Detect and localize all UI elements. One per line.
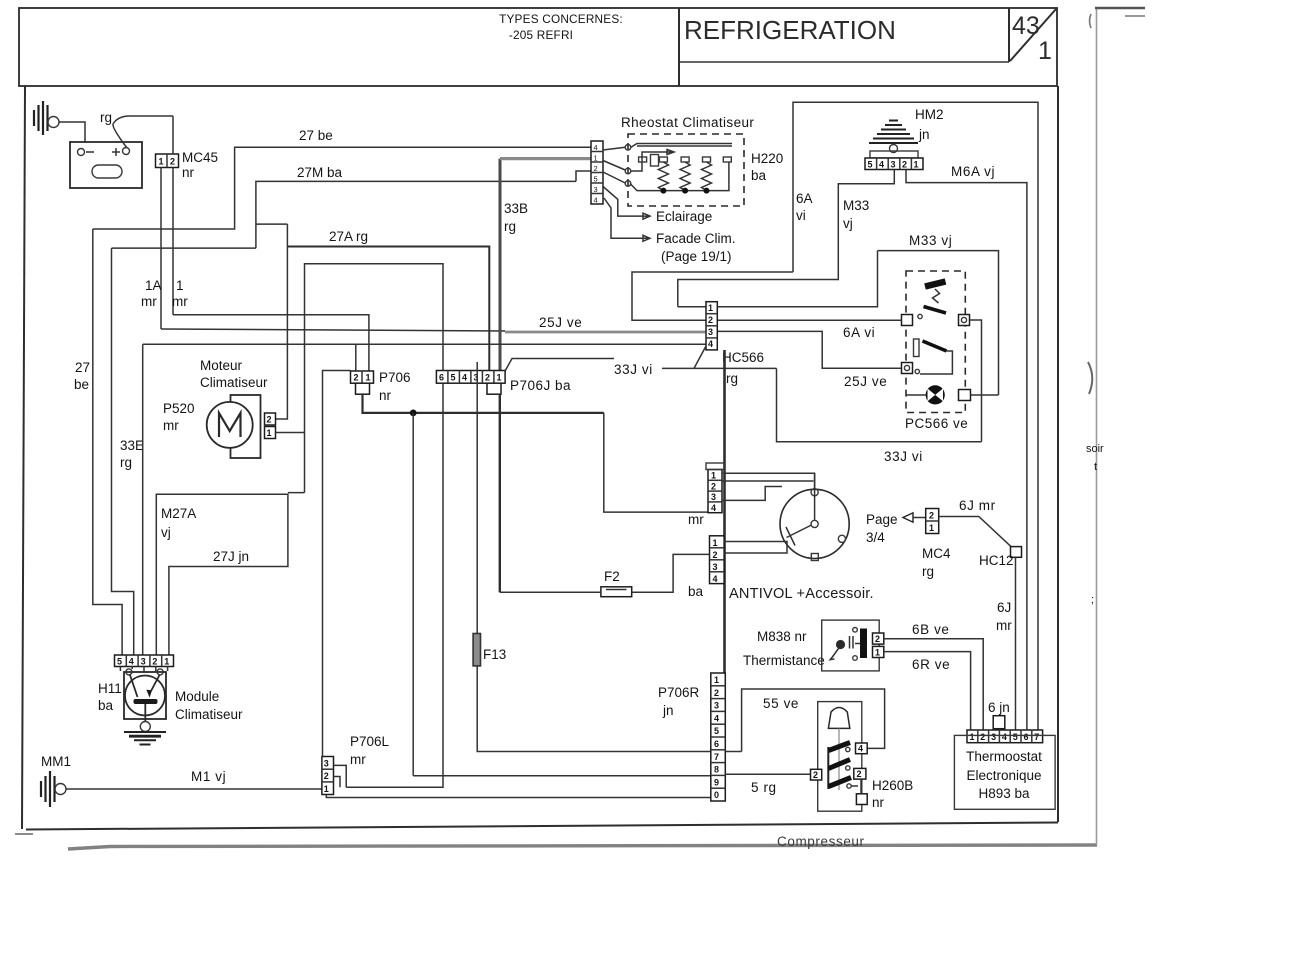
svg-text:6 jn: 6 jn <box>988 700 1010 715</box>
wire 5 rg <box>725 773 810 775</box>
thermistor arrow <box>830 649 838 660</box>
svg-text:rg: rg <box>922 564 934 579</box>
svg-text:27J jn: 27J jn <box>213 549 249 564</box>
wire HM2 left leg to HC566 pin2 <box>632 272 793 320</box>
H260B circle3 wire <box>851 785 858 787</box>
svg-text:2: 2 <box>902 160 907 170</box>
svg-text:HC566: HC566 <box>722 350 764 365</box>
junction dot bus <box>410 410 417 417</box>
svg-text:Thermoostat: Thermoostat <box>966 749 1042 764</box>
H260B dome <box>828 708 849 729</box>
svg-text:M33: M33 <box>843 198 869 213</box>
svg-text:27M ba: 27M ba <box>297 165 343 180</box>
svg-text:vj: vj <box>843 216 853 231</box>
wire strip to node3 <box>603 172 625 183</box>
wire T2 right <box>970 320 982 442</box>
wire MC45 upper feed <box>172 116 174 154</box>
svg-text:1: 1 <box>159 157 164 167</box>
svg-text:4: 4 <box>129 657 134 667</box>
svg-text:25J ve: 25J ve <box>844 374 887 389</box>
junction dot r2 <box>682 188 688 194</box>
svg-text:mr: mr <box>996 618 1012 633</box>
svg-text:Module: Module <box>175 689 219 704</box>
rheostat node circle 2 <box>625 168 631 174</box>
HM2 pin digits 54321 <box>868 160 919 170</box>
H260B terminal bottom <box>856 794 867 805</box>
wire 33E rg horizontal <box>112 247 256 249</box>
svg-text:6A: 6A <box>796 191 813 206</box>
svg-text:PC566 ve: PC566 ve <box>905 416 968 431</box>
switch center node <box>811 520 818 527</box>
wire P706 vertical bus to P706L <box>323 371 351 757</box>
wire 6A vi right <box>717 319 901 321</box>
H260B terminal 4 <box>856 743 868 754</box>
wire antivol pin3 to switch <box>722 487 782 501</box>
svg-text:vj: vj <box>161 525 171 540</box>
svg-text:ba: ba <box>688 584 704 599</box>
relay switch arm 2 <box>923 341 947 351</box>
svg-text:7: 7 <box>1034 732 1039 742</box>
antivol mr pin digits <box>711 471 716 513</box>
wire HM2 pin3 down <box>678 170 895 307</box>
svg-text:mr: mr <box>141 294 157 309</box>
svg-text:vi: vi <box>796 208 806 223</box>
rheostat H220 dashed box <box>628 134 744 206</box>
wire 27A rg left vertical <box>276 224 288 419</box>
thermistance M838 box <box>822 620 880 671</box>
svg-text:2: 2 <box>267 415 272 425</box>
H11 pin digits 54321 <box>117 657 169 667</box>
HM2 frame top <box>793 102 1038 730</box>
svg-text:5 rg: 5 rg <box>751 780 777 795</box>
svg-text:4: 4 <box>1002 732 1007 742</box>
wire long mid bus to HC566 pin4 <box>143 343 706 345</box>
battery terminal minus <box>78 149 85 156</box>
MC45 pin divider <box>166 154 168 168</box>
wire left long vertical to H11 pin3 <box>142 344 144 655</box>
wire pins into transistor <box>120 667 167 673</box>
thermistor circle top <box>853 628 858 633</box>
svg-text:M1 vj: M1 vj <box>191 769 226 784</box>
wire P706 to bus <box>363 394 604 413</box>
svg-text:4: 4 <box>711 503 716 513</box>
svg-text:2: 2 <box>714 688 719 698</box>
wire 1A mr vertical <box>160 168 162 330</box>
svg-text:4: 4 <box>594 196 598 205</box>
rheostat terminal small <box>651 155 659 167</box>
relay M33 box top <box>878 251 999 395</box>
svg-text:mr: mr <box>350 752 366 767</box>
svg-text:nr: nr <box>182 165 195 180</box>
wire F2 <box>500 554 710 592</box>
svg-text:5: 5 <box>1013 732 1018 742</box>
connector MC4 <box>926 509 939 534</box>
wire 27A rg thick <box>287 247 489 372</box>
antivol ba pin digits <box>713 538 718 584</box>
svg-text:Eclairage: Eclairage <box>656 209 712 224</box>
svg-text:2: 2 <box>813 770 818 780</box>
P706J tab below <box>487 383 501 394</box>
svg-text:H260B: H260B <box>872 778 913 793</box>
wire 27M ba to rheostat <box>576 171 591 181</box>
svg-text:27A rg: 27A rg <box>329 229 368 244</box>
svg-text:jn: jn <box>662 703 674 718</box>
svg-text:1: 1 <box>914 160 919 170</box>
svg-text:nr: nr <box>379 388 392 403</box>
svg-text:4: 4 <box>708 339 713 349</box>
M27A loop <box>156 494 288 655</box>
svg-text:7: 7 <box>714 752 719 762</box>
MM1 circle <box>55 784 66 795</box>
svg-text:rg: rg <box>504 219 516 234</box>
svg-text:27 be: 27 be <box>299 128 333 143</box>
svg-text:33J vi: 33J vi <box>614 362 653 377</box>
connector P706 <box>351 371 374 383</box>
title box underline <box>679 61 1009 63</box>
svg-text:1: 1 <box>1038 37 1052 65</box>
svg-text:rg: rg <box>120 455 132 470</box>
svg-text:-205 REFRI: -205 REFRI <box>509 28 573 42</box>
battery oval <box>92 165 122 178</box>
H11 top pin circle right <box>157 669 163 675</box>
thermistor gap lines <box>850 636 854 649</box>
switch arm <box>786 525 812 546</box>
svg-text:0: 0 <box>714 790 719 800</box>
connector H11 strip <box>115 655 174 667</box>
wire bottom lowest long <box>326 795 721 798</box>
connector HC566 <box>706 302 717 350</box>
rheostat node circle 1 <box>625 145 631 151</box>
svg-text:Page: Page <box>866 512 898 527</box>
wire P706J pin6 lower <box>346 383 443 787</box>
svg-text:P706: P706 <box>379 370 411 385</box>
motor P520 frame <box>231 395 261 458</box>
svg-text:1: 1 <box>164 657 169 667</box>
svg-text:5: 5 <box>714 726 719 736</box>
svg-text:2: 2 <box>324 771 329 781</box>
wire ground to battery <box>59 122 85 142</box>
wire 27M ba <box>256 181 576 248</box>
svg-text:ba: ba <box>98 698 114 713</box>
H260B terminal 2 right <box>854 768 866 779</box>
pressure switch H260B box <box>818 702 862 812</box>
wire junction down <box>412 413 414 776</box>
connector HM2 bracket <box>870 151 918 158</box>
wire antivol pin1 to switch top <box>722 473 815 488</box>
wire M1 vj <box>66 788 322 790</box>
wire 27 be <box>93 147 591 229</box>
svg-text:33E: 33E <box>120 438 144 453</box>
svg-text:M838 nr: M838 nr <box>757 629 807 644</box>
rheostat bottom bus <box>630 162 729 191</box>
connector rheostat strip <box>591 141 603 204</box>
svg-text:Climatiseur: Climatiseur <box>175 707 243 722</box>
svg-text:3: 3 <box>324 759 329 769</box>
wire 25J feed thin <box>161 329 505 331</box>
svg-text:M6A vj: M6A vj <box>951 164 995 179</box>
wire 25J ve right <box>717 331 901 368</box>
wire P706 feed <box>173 315 369 371</box>
wire MC4 to HC12 <box>939 517 1011 547</box>
ground HM2 <box>869 121 918 144</box>
fuse F13 <box>473 634 480 666</box>
relay terminal T1 <box>902 315 913 326</box>
svg-text:2: 2 <box>711 481 716 491</box>
svg-text:4: 4 <box>713 574 718 584</box>
H260B terminal link <box>860 779 862 794</box>
page edge artifact corner <box>1090 14 1092 28</box>
wire to Eclairage <box>603 186 651 219</box>
svg-text:55 ve: 55 ve <box>763 696 799 711</box>
svg-text:1A: 1A <box>145 278 162 293</box>
svg-text:H11: H11 <box>98 681 122 696</box>
svg-text:Thermistance: Thermistance <box>743 653 825 668</box>
ground MM1 <box>41 771 55 807</box>
transistor emitter arrow <box>148 691 152 696</box>
svg-text:MC45: MC45 <box>182 150 218 165</box>
svg-text:6B ve: 6B ve <box>912 622 950 637</box>
connector MC45 <box>156 154 179 168</box>
T3 inner circle <box>904 365 909 370</box>
svg-text:1: 1 <box>713 538 718 548</box>
H260B contact bar 1 <box>829 743 851 751</box>
junction dot r1 <box>660 188 666 194</box>
svg-text:Electronique: Electronique <box>966 768 1041 783</box>
svg-text:nr: nr <box>872 795 885 810</box>
battery <box>70 142 142 188</box>
transistor stem <box>144 704 146 722</box>
resistor zigzag 1 <box>658 162 668 191</box>
svg-text:1: 1 <box>366 373 371 383</box>
wire 55 ve loop <box>742 689 885 752</box>
page number diagonal <box>1010 9 1056 61</box>
page edge artifact vertical <box>1096 8 1098 845</box>
ignition switch circle <box>780 489 849 558</box>
svg-text:3: 3 <box>708 327 713 337</box>
H260B contact bar 2 <box>829 760 851 769</box>
relay PC566 dashed box <box>906 271 965 413</box>
svg-text:MC4: MC4 <box>922 546 951 561</box>
switch bottom node <box>811 554 818 561</box>
wire HM2 pin2 to M6A <box>906 170 1027 731</box>
transistor base bar <box>134 699 158 704</box>
svg-text:TYPES CONCERNES:: TYPES CONCERNES: <box>499 12 623 26</box>
thermostat electronique box <box>954 735 1055 809</box>
page edge artifact top mark <box>1095 7 1145 9</box>
fuse F2 <box>601 587 632 597</box>
svg-text:t: t <box>1094 461 1097 473</box>
relay arm2 wire <box>920 351 952 374</box>
svg-text:3: 3 <box>891 160 896 170</box>
rheostat strip pin digits <box>594 143 598 205</box>
wire rg battery positive <box>113 116 173 148</box>
wire to Facade Clim <box>604 198 650 241</box>
wire motor terminal1 down <box>276 433 305 493</box>
svg-text:1: 1 <box>176 278 184 293</box>
svg-text:ANTIVOL +Accessoir.: ANTIVOL +Accessoir. <box>729 586 874 602</box>
svg-text:6: 6 <box>439 373 444 383</box>
svg-text:mr: mr <box>172 294 188 309</box>
H260B contact circles <box>846 747 850 751</box>
wire bus to antivol connector <box>604 413 708 512</box>
wire 25J ve thick <box>505 331 706 334</box>
thermistor black bar <box>860 629 867 659</box>
relay motor symbol <box>926 385 945 404</box>
wire antivol pin2 to switch <box>722 480 814 482</box>
wire 33J vi right segment <box>662 346 777 368</box>
svg-text:P520: P520 <box>163 401 195 416</box>
svg-text:P706L: P706L <box>350 734 390 749</box>
svg-text:F13: F13 <box>483 647 506 662</box>
page arrow triangle <box>903 513 913 522</box>
rheostat wiper arrow <box>631 150 674 172</box>
svg-text:5: 5 <box>117 657 122 667</box>
svg-text:Facade Clim.: Facade Clim. <box>656 231 736 246</box>
page shadow line bottom <box>68 845 1097 849</box>
thermistor bulb <box>836 640 845 649</box>
H260B contact bar 3 <box>829 778 852 787</box>
svg-text:6J mr: 6J mr <box>959 498 996 513</box>
svg-text:6: 6 <box>1024 732 1029 742</box>
svg-text:3/4: 3/4 <box>866 530 885 545</box>
thermistor tick <box>855 643 860 645</box>
P706R pin digits <box>714 675 719 800</box>
svg-text:2: 2 <box>708 315 713 325</box>
antivol mr bracket <box>706 463 724 470</box>
svg-text:2: 2 <box>170 157 175 167</box>
ground H11 <box>124 732 166 745</box>
wire 6B ve <box>884 639 983 730</box>
switch top node <box>811 489 818 496</box>
resistor zigzag 3 <box>702 162 712 191</box>
H260B terminal 2 left <box>811 769 822 780</box>
svg-text:HC12: HC12 <box>979 553 1014 568</box>
svg-text:soir: soir <box>1086 443 1104 455</box>
svg-text:;: ; <box>1091 594 1094 606</box>
HM2 ground circle <box>890 145 898 153</box>
wire motor left <box>906 394 926 396</box>
svg-text:3: 3 <box>713 562 718 572</box>
MC4 pin digits <box>929 511 934 534</box>
rheostat terminal 2 <box>659 157 667 162</box>
svg-text:2: 2 <box>857 769 862 779</box>
svg-text:2: 2 <box>152 657 157 667</box>
svg-text:2: 2 <box>980 732 985 742</box>
svg-text:2: 2 <box>929 511 934 521</box>
svg-text:4: 4 <box>858 744 863 754</box>
svg-text:5: 5 <box>868 160 873 170</box>
ground terminal circle <box>48 117 59 128</box>
svg-text:HM2: HM2 <box>915 107 944 122</box>
svg-text:5: 5 <box>594 175 598 184</box>
svg-text:1: 1 <box>497 373 502 383</box>
frame bottom border <box>26 823 1058 830</box>
svg-text:1: 1 <box>875 648 880 658</box>
motor M glyph <box>219 413 241 437</box>
T2 inner circle <box>961 317 966 322</box>
wire P706 stub <box>355 344 357 370</box>
thermistor circle bottom <box>853 656 858 661</box>
battery plus sign <box>112 148 120 156</box>
wire F13 vertical upper <box>476 362 478 634</box>
motor P520 circle <box>207 402 253 448</box>
svg-text:be: be <box>74 377 89 392</box>
wire strip to node1 <box>603 147 625 150</box>
wire 33J bottom loop <box>777 368 982 441</box>
svg-text:rg: rg <box>100 110 112 125</box>
frame right border <box>1057 86 1059 822</box>
svg-text:Rheostat Climatiseur: Rheostat Climatiseur <box>621 115 754 130</box>
artifact bracket <box>1088 362 1092 394</box>
svg-text:25J ve: 25J ve <box>539 315 582 330</box>
P706J pin digits <box>439 373 502 383</box>
rheostat terminal 3 <box>681 157 689 162</box>
svg-text:rg: rg <box>726 371 738 386</box>
svg-text:H220: H220 <box>751 151 783 166</box>
svg-text:2: 2 <box>485 373 490 383</box>
relay top contact bar <box>925 282 946 287</box>
wire 33E rg vertical <box>112 248 134 655</box>
frame left border <box>22 86 25 829</box>
svg-text:3: 3 <box>594 185 598 194</box>
H260B center line <box>838 728 840 790</box>
svg-text:3: 3 <box>714 701 719 711</box>
M838 terminal lower <box>873 646 884 657</box>
transistor H11 circle <box>125 676 165 716</box>
connector 6jn square <box>993 716 1005 729</box>
resistor zigzag 2 <box>680 162 690 191</box>
svg-text:MM1: MM1 <box>41 754 71 769</box>
battery minus sign <box>86 151 94 153</box>
svg-text:4: 4 <box>714 713 719 723</box>
wire F13 lower <box>477 666 741 752</box>
svg-text:6A vi: 6A vi <box>843 325 875 340</box>
connector HM2 strip <box>865 158 923 170</box>
connector P706L <box>322 757 334 795</box>
P706L tabs <box>334 765 347 787</box>
svg-text:F2: F2 <box>604 569 620 584</box>
svg-text:33J vi: 33J vi <box>884 449 923 464</box>
M838 terminal 2 upper <box>873 633 884 644</box>
svg-text:27: 27 <box>75 360 90 375</box>
wire 27 be left vertical <box>93 229 122 655</box>
thermostat pin digits <box>970 732 1040 742</box>
rheostat track <box>631 144 732 148</box>
wire HC566 rg main vertical bus <box>723 350 726 798</box>
svg-text:Climatiseur: Climatiseur <box>200 375 268 390</box>
wire 6R ve <box>884 652 971 730</box>
wire bottom long to P706R <box>413 775 711 777</box>
svg-text:8: 8 <box>714 765 719 775</box>
HC566 pin digits <box>708 303 713 349</box>
page edge artifact small mark <box>1125 15 1145 17</box>
svg-text:1: 1 <box>708 303 713 313</box>
wire 33J vi left segment <box>505 359 614 372</box>
wire 27M ba jog right <box>256 223 288 225</box>
svg-text:Compresseur: Compresseur <box>777 834 865 849</box>
wire 1 mr vertical <box>172 168 174 315</box>
svg-text:2: 2 <box>713 550 718 560</box>
relay pivot circle 2 <box>915 369 919 373</box>
svg-text:REFRIGERATION: REFRIGERATION <box>684 15 896 45</box>
wire ba to switch upper <box>724 542 787 554</box>
connector HC12 <box>1011 547 1022 558</box>
svg-text:43: 43 <box>1012 12 1040 40</box>
relay spring <box>933 289 940 303</box>
title block divider vertical <box>678 8 680 86</box>
transistor legs <box>130 675 160 697</box>
junction dot r3 <box>704 188 710 194</box>
